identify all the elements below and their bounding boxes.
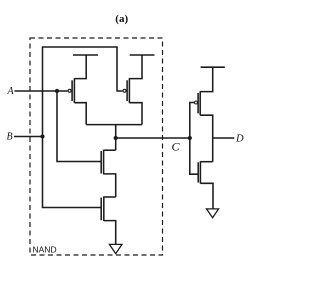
transistor Q1 PMOS — [68, 55, 86, 125]
transistor Q6 NMOS — [198, 161, 213, 208]
wire C horizontal — [116, 137, 190, 139]
junction C to inverter — [188, 136, 192, 140]
wire D output — [213, 137, 235, 139]
svg-text:B: B — [7, 132, 13, 143]
svg-text:(a): (a) — [115, 13, 128, 25]
wire node C vertical — [115, 125, 117, 151]
transistor Q3 NMOS — [101, 150, 116, 197]
wire B to top rail and Q2 gate — [43, 47, 123, 137]
svg-text:NAND: NAND — [33, 245, 57, 255]
transistor Q5 PMOS — [195, 67, 213, 162]
wire C to Q5 gate — [190, 103, 194, 139]
transistor Q2 PMOS — [123, 55, 142, 125]
junction C — [114, 136, 118, 140]
junction B — [40, 134, 44, 138]
ground inverter — [207, 209, 219, 218]
svg-text:D: D — [235, 134, 244, 145]
NAND dashed boundary box — [30, 38, 163, 255]
ground NAND — [109, 244, 122, 253]
wire A to N1 gate — [57, 91, 101, 162]
wire B input — [14, 136, 43, 138]
transistor Q4 NMOS — [101, 196, 116, 244]
svg-text:A: A — [7, 86, 15, 97]
VDD supply bar Q1 — [73, 54, 98, 56]
VDD supply bar Q5 — [201, 66, 225, 68]
wire pmos drain join — [86, 124, 142, 126]
wire A input — [15, 90, 68, 92]
VDD supply bar Q2 — [130, 54, 155, 56]
svg-text:C: C — [172, 140, 181, 154]
wire C to Q6 gate — [190, 138, 198, 174]
junction A — [55, 89, 59, 93]
wire B to N2 gate — [43, 137, 101, 208]
